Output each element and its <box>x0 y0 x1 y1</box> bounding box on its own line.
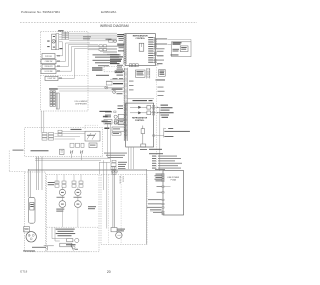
defrost sensor R1 <box>105 114 126 118</box>
svg-text:DOOR SW: DOOR SW <box>45 71 53 73</box>
wire bundle dispenser to control <box>59 33 117 42</box>
lamp wires <box>108 87 125 89</box>
freezer sensor R2 <box>105 120 126 124</box>
svg-text:CONTROL: CONTROL <box>136 38 146 40</box>
cond fan label <box>117 229 125 232</box>
switch drop wires <box>72 154 82 161</box>
wire color legend block <box>149 153 182 170</box>
svg-text:PCBA: PCBA <box>171 179 177 182</box>
U2 title <box>132 116 148 121</box>
ice maker internal wires <box>55 132 86 140</box>
dispenser harness connector J2 <box>62 32 69 39</box>
ice maker connector block J3 <box>42 133 54 141</box>
crush switch S3 <box>42 64 55 68</box>
U2 bottom component <box>141 144 146 147</box>
U2 output wires right <box>151 107 160 170</box>
sub board module A3 <box>136 70 146 77</box>
title WIRING DIAGRAM <box>100 24 129 28</box>
svg-text:BK BK BK: BK BK BK <box>119 176 121 185</box>
evap fan motor M2 <box>59 189 65 195</box>
aux solid wire <box>106 162 108 228</box>
signal label <box>157 55 164 56</box>
cond fan connector <box>111 228 117 232</box>
dark bar label 2 <box>112 88 123 89</box>
adapter harness note <box>104 153 127 158</box>
fresh food lamp L3 <box>113 90 125 93</box>
water valve harness label <box>83 36 91 39</box>
dispenser lamp assembly connector <box>52 34 59 50</box>
wire label BK <box>59 48 62 49</box>
U1 inner right pin labels <box>148 37 155 63</box>
adapter right texts <box>118 162 127 169</box>
dashed rail left of control <box>123 78 125 110</box>
compressor compartment (dashed) <box>25 172 46 252</box>
ice maker label <box>71 129 82 130</box>
icemaker feed risers <box>41 111 44 133</box>
ice and water dispenser enclosure (dashed) <box>41 32 89 111</box>
U1 right pins <box>154 39 156 63</box>
stack wire labels <box>57 55 62 78</box>
A5 pin label cluster <box>155 174 163 182</box>
P1 right companion strip <box>147 68 150 78</box>
thermistor label <box>140 149 162 150</box>
harness ground circle G1 <box>106 39 117 43</box>
right long wire <box>146 169 148 244</box>
harness ref label P1 <box>99 111 111 112</box>
board connector strip P1 <box>124 68 127 141</box>
freezer light label <box>113 78 124 79</box>
U1 title <box>133 35 149 40</box>
small row module <box>112 132 121 135</box>
valve feed wires <box>58 86 99 91</box>
line power board A5 <box>163 171 184 216</box>
freezer lamp L2 <box>105 86 108 89</box>
U1 input wires <box>100 52 117 53</box>
water valve label <box>49 88 58 89</box>
dark bar label 1 <box>113 83 123 84</box>
pin count label b <box>102 121 108 123</box>
distribution bus <box>28 158 163 171</box>
svg-text:LIGHT SW: LIGHT SW <box>48 78 56 80</box>
compressor bottom dash tail <box>30 251 90 253</box>
freezer light box <box>106 82 112 85</box>
fan drop wires <box>62 208 78 228</box>
strip left labels <box>117 69 134 95</box>
fan labels <box>56 197 96 212</box>
svg-text:CONTROL: CONTROL <box>135 120 145 122</box>
pin count label c <box>104 128 109 130</box>
dispenser enclosure label <box>75 100 88 106</box>
right mid labels <box>157 105 174 118</box>
switch riser wires <box>55 42 117 79</box>
cond fan feed pair <box>112 171 118 228</box>
U1 left pin label extras <box>117 38 124 68</box>
svg-text:20: 20 <box>107 270 111 274</box>
ice maker limit switch SW1 <box>70 150 73 153</box>
U1 bottom edge connectors <box>129 64 138 67</box>
inline connector pair CP2 <box>88 49 117 51</box>
refrigerator control board U1 (upper) <box>125 34 155 66</box>
svg-text:ET18: ET18 <box>20 270 27 274</box>
ice maker plug pair <box>58 130 62 136</box>
pcba link dashes <box>147 170 163 172</box>
left drop dashed <box>9 151 25 172</box>
A1 title blob <box>173 42 182 44</box>
svg-text:CUBE SW: CUBE SW <box>45 61 53 63</box>
adapter drop wires <box>113 167 115 174</box>
model number text <box>101 10 117 14</box>
dashed junction lines <box>104 67 125 72</box>
door alarm label 1 <box>156 38 191 41</box>
fan connector pair A <box>55 181 66 187</box>
dispenser user interface board A1 <box>172 42 192 57</box>
compressor label <box>23 247 46 252</box>
ice maker thermostat TH1 <box>85 131 100 141</box>
row label a <box>105 105 123 112</box>
dispenser lamp L1 <box>52 40 56 44</box>
light switch S5 <box>45 76 58 80</box>
svg-text:Publication No. 5995447984: Publication No. 5995447984 <box>21 10 60 14</box>
aux right labels <box>157 48 165 60</box>
defrost resistance box <box>60 243 76 247</box>
condenser fan compartment (dashed) <box>101 175 147 245</box>
svg-text:WTR SW: WTR SW <box>45 56 52 58</box>
U2 left pin ticks <box>125 105 128 136</box>
fan connector pair B <box>72 181 83 187</box>
form number <box>20 270 27 274</box>
water valve coil W1 <box>50 91 52 107</box>
water switch S1 <box>42 54 55 59</box>
water valve coil W2 <box>53 91 55 107</box>
wide module A4 <box>105 127 124 131</box>
rail stub labels <box>158 87 165 96</box>
inner dashed rails right compartment <box>108 175 121 245</box>
inline connector pair CP1 <box>88 45 117 47</box>
U1 left pin labels <box>110 34 124 73</box>
lamp label DISP LIGHT <box>47 30 63 41</box>
evap fan label <box>48 182 55 185</box>
U2 diode D2 <box>130 111 151 115</box>
cond fan motor M4b <box>75 201 82 208</box>
cube switch S2 <box>41 59 56 64</box>
line label <box>156 63 163 65</box>
defrost heater R4 <box>67 238 79 242</box>
header rule <box>20 22 197 24</box>
pin count label a <box>103 116 108 118</box>
A5 single pin labels <box>147 186 163 213</box>
overload protector OL1 <box>24 227 30 232</box>
svg-text:E23BC28A: E23BC28A <box>101 10 117 14</box>
control drop wires <box>100 124 134 190</box>
sabbath mode module A2 <box>159 70 166 77</box>
U1 relay K1 <box>139 43 144 51</box>
svg-text:CRUSH SW: CRUSH SW <box>44 66 53 68</box>
strip feed wires <box>106 79 124 81</box>
defrost tee wire <box>44 246 54 251</box>
A5 title <box>167 177 180 182</box>
U2 right pin ticks <box>153 105 155 136</box>
A1 inner display box <box>180 46 188 52</box>
dashed rail right of control <box>156 67 158 170</box>
defrost heater notes <box>56 229 75 237</box>
terminator note <box>155 128 190 138</box>
ice maker motor M5 <box>89 143 97 148</box>
damper wire <box>127 99 154 101</box>
PTC start relay <box>28 197 35 223</box>
power cord label <box>13 150 24 151</box>
dashed stub corner <box>85 125 98 130</box>
defrost riser wires <box>52 227 67 241</box>
compressor motor M1 <box>26 232 36 242</box>
A5 internal wire <box>164 186 171 188</box>
cond fan motor M4 <box>116 232 122 238</box>
fan wires <box>57 175 81 201</box>
U2 diode D1 <box>130 106 151 110</box>
door alarm label 2 <box>156 44 172 45</box>
svg-text:WIRING DIAGRAM: WIRING DIAGRAM <box>100 24 129 28</box>
valve wire extensions <box>95 54 118 91</box>
lamp terminal label <box>47 36 55 48</box>
mold heater R3 <box>60 149 65 154</box>
water valve outlet strip <box>56 93 59 109</box>
ice maker enclosure (dashed) <box>25 128 103 157</box>
harness plug pair J4 <box>104 120 124 125</box>
page number <box>107 270 111 274</box>
svg-text:W W W: W W W <box>121 176 123 182</box>
vertical wire labels <box>119 176 124 185</box>
compressor feed wires <box>28 157 42 198</box>
A1 lower text <box>171 49 180 56</box>
svg-text:DISPENSER: DISPENSER <box>75 104 87 106</box>
ice maker aux contacts <box>70 143 84 147</box>
mold heater label <box>31 150 49 151</box>
A5 pins <box>162 174 164 215</box>
U1 left pin strip <box>124 34 127 64</box>
defrost thermostat TH2 <box>71 245 79 251</box>
door switch S4 <box>41 69 56 73</box>
adapter connector stack <box>111 160 116 174</box>
refrigerator control board U2 (lower) <box>126 103 154 147</box>
aux fan motor M3 <box>75 189 81 195</box>
publication number text <box>21 10 60 14</box>
notes text block <box>92 54 121 76</box>
ice maker hold switch SW2 <box>80 150 83 153</box>
evap fan motor M2b <box>59 201 66 208</box>
svg-text:ICE & WATER: ICE & WATER <box>75 100 88 103</box>
evap/cond compartment (dashed) <box>47 175 100 252</box>
U2 capacitor C1 <box>141 126 145 145</box>
label below sabbath <box>156 79 166 80</box>
